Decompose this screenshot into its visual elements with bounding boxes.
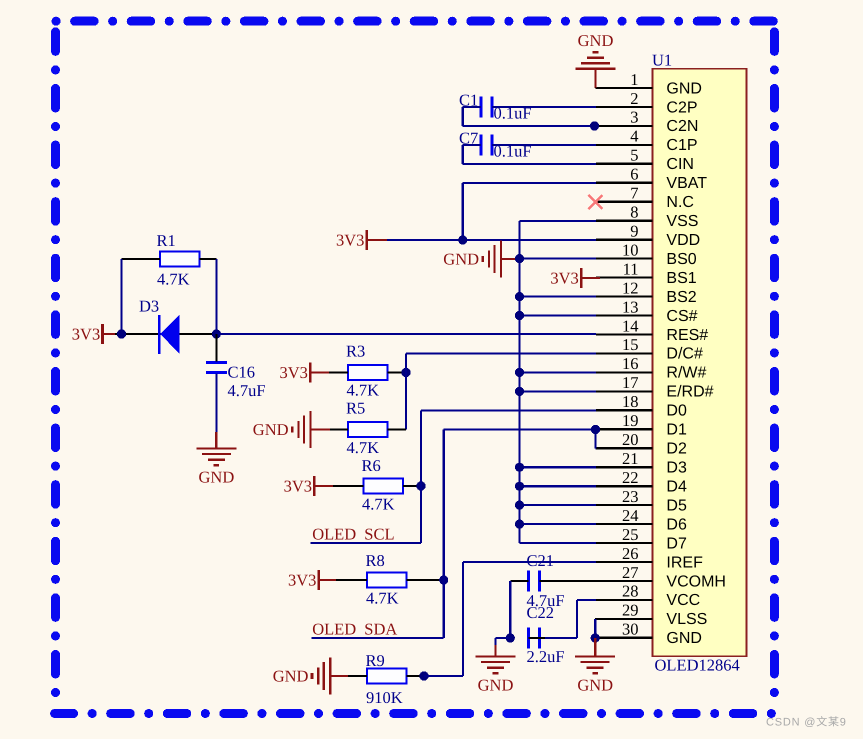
svg-text:GND: GND <box>199 467 235 486</box>
node R6 tap on D0 <box>416 481 425 490</box>
svg-text:VDD: VDD <box>666 232 700 249</box>
svg-text:3V3: 3V3 <box>288 571 316 590</box>
svg-text:D1: D1 <box>666 422 687 439</box>
wire D1 net vertical and runs <box>444 430 596 639</box>
svg-text:4.7K: 4.7K <box>362 495 395 514</box>
node bus junction pin 10 row <box>515 254 524 263</box>
pin 30 (GND) <box>596 620 702 648</box>
ground GND (sideways, R9) <box>273 658 348 695</box>
node bus junction pin 12 row <box>515 292 524 301</box>
svg-text:D/C#: D/C# <box>666 346 703 363</box>
wire R1 left leg <box>122 259 161 334</box>
svg-text:E/RD#: E/RD# <box>666 384 713 401</box>
svg-text:R8: R8 <box>366 551 385 570</box>
pin 7 (N.C) <box>596 184 694 212</box>
svg-text:4.7uF: 4.7uF <box>228 381 266 400</box>
svg-text:1: 1 <box>630 70 638 89</box>
svg-text:OLED: OLED <box>312 525 356 544</box>
svg-text:3V3: 3V3 <box>550 269 578 288</box>
node pin30 junction <box>591 633 600 642</box>
svg-text:13: 13 <box>622 297 639 316</box>
resistor R1 <box>157 231 200 289</box>
pin 17 (E/RD#) <box>596 373 714 401</box>
svg-text:2: 2 <box>630 89 638 108</box>
svg-text:CS#: CS# <box>666 308 697 325</box>
wire C1 left to pin3 row <box>463 107 596 126</box>
wire C22 to ground <box>496 638 511 647</box>
svg-text:D3: D3 <box>139 297 159 316</box>
svg-text:19: 19 <box>622 411 639 430</box>
pin 27 (VCOMH) <box>596 563 726 591</box>
node bus junction pin 13 row <box>515 311 524 320</box>
power port 3V3 (VDD rail) <box>336 230 387 250</box>
svg-text:SCL: SCL <box>364 525 394 544</box>
ground GND (below pin30) <box>575 638 615 695</box>
wire C21 right to pin27 <box>540 580 596 582</box>
power port 3V3 (R6) <box>284 476 333 496</box>
svg-text:8: 8 <box>630 203 638 222</box>
svg-text:CSDN @文某9: CSDN @文某9 <box>766 716 847 729</box>
power port 3V3 (R3) <box>280 363 330 383</box>
svg-text:10: 10 <box>622 240 639 259</box>
svg-text:C22: C22 <box>527 603 555 622</box>
wire C7 left to pin5 row <box>463 145 596 164</box>
pin 15 (D/C#) <box>596 335 703 363</box>
power port 3V3 (R8) <box>288 570 336 590</box>
svg-text:C1P: C1P <box>666 137 697 154</box>
node bus junction pin 24 row <box>515 520 524 529</box>
svg-text:11: 11 <box>623 259 639 278</box>
wire bus to pin 23 <box>520 504 597 506</box>
wire bus to pin 22 <box>520 485 597 487</box>
pin 20 (D2) <box>596 430 687 458</box>
resistor R6 <box>362 456 404 514</box>
ground GND (below C22) <box>476 645 516 695</box>
svg-text:3V3: 3V3 <box>284 477 312 496</box>
wire bus to pin 13 <box>520 314 597 316</box>
node diode anode junction <box>117 329 126 338</box>
wire C16 bottom <box>215 374 217 433</box>
resistor R3 <box>346 342 388 400</box>
pin 13 (CS#) <box>596 297 698 325</box>
svg-text:GND: GND <box>578 31 614 50</box>
svg-text:GND: GND <box>577 676 613 695</box>
no-connect X on pin 7 <box>588 195 602 209</box>
wire R8 leads <box>336 579 444 581</box>
net label OLED_SDA <box>312 620 444 639</box>
wire C7 right to pin4 <box>492 144 596 146</box>
svg-text:BS0: BS0 <box>666 251 696 268</box>
node pin3 junction <box>590 121 599 130</box>
svg-text:3V3: 3V3 <box>72 325 100 344</box>
svg-text:R1: R1 <box>157 231 176 250</box>
pin 10 (BS0) <box>596 240 697 268</box>
svg-text:3: 3 <box>630 108 638 127</box>
svg-text:15: 15 <box>622 335 639 354</box>
pin 26 (IREF) <box>596 544 703 572</box>
diode D3 <box>139 297 180 355</box>
wire bus to pin 10 <box>520 258 597 260</box>
svg-text:3V3: 3V3 <box>280 363 308 382</box>
wire GND bus vertical <box>520 221 597 543</box>
node VBAT/VDD junction <box>458 235 467 244</box>
pin 2 (C2P) <box>596 89 698 117</box>
capacitor C7 <box>459 129 532 161</box>
ground GND (top, to pin 1) <box>576 31 616 88</box>
svg-text:4.7K: 4.7K <box>347 438 380 457</box>
wire bus to pin 16 <box>520 371 597 373</box>
wire pin1 to ground <box>594 87 597 89</box>
svg-text:R6: R6 <box>362 456 381 475</box>
svg-text:29: 29 <box>622 601 639 620</box>
net label OLED_SCL <box>311 525 422 544</box>
svg-text:GND: GND <box>443 249 479 268</box>
svg-text:C2N: C2N <box>666 118 698 135</box>
wire C22 right to pin28 <box>528 600 596 638</box>
svg-text:CIN: CIN <box>666 156 694 173</box>
svg-text:12: 12 <box>622 278 639 297</box>
resistor R8 <box>366 551 407 607</box>
svg-text:D2: D2 <box>666 441 687 458</box>
svg-text:D7: D7 <box>666 535 687 552</box>
svg-text:VLSS: VLSS <box>666 611 707 628</box>
IC U1 (OLED12864 body) <box>652 51 747 675</box>
svg-text:OLED: OLED <box>312 620 356 639</box>
svg-text:GND: GND <box>666 630 702 647</box>
svg-text:27: 27 <box>622 563 639 582</box>
svg-text:D5: D5 <box>666 497 687 514</box>
node R8 tap on D1 net <box>439 575 448 584</box>
svg-text:IREF: IREF <box>666 554 703 571</box>
pin 16 (R/W#) <box>596 354 707 382</box>
svg-text:U1: U1 <box>652 51 672 70</box>
resistor R9 <box>366 651 407 707</box>
svg-text:GND: GND <box>666 80 702 97</box>
svg-text:20: 20 <box>622 430 639 449</box>
pin 25 (D7) <box>596 525 687 553</box>
node diode cathode junction <box>212 329 221 338</box>
pin 1 (GND) <box>596 70 702 98</box>
svg-text:D6: D6 <box>666 516 687 533</box>
wire D0 vertical (pin18 to OLED_SCL) <box>421 411 596 544</box>
svg-text:GND: GND <box>273 666 309 685</box>
wire 3V3 to pin9 VDD <box>387 239 596 241</box>
svg-text:910K: 910K <box>366 688 403 707</box>
svg-text:22: 22 <box>622 468 639 487</box>
svg-text:5: 5 <box>630 146 638 165</box>
svg-text:2.2uF: 2.2uF <box>527 647 565 666</box>
svg-text:C16: C16 <box>228 363 256 382</box>
svg-text:6: 6 <box>630 165 638 184</box>
svg-text:C2P: C2P <box>666 99 697 116</box>
svg-text:OLED12864: OLED12864 <box>655 656 740 675</box>
pin 14 (RES#) <box>596 316 708 344</box>
wire R3 leads <box>329 371 406 373</box>
node bus junction pin 17 row <box>515 387 524 396</box>
node bus junction pin 21 row <box>515 463 524 472</box>
wire 3V3 through diode to RES# <box>115 333 216 335</box>
pin 22 (D4) <box>596 468 687 496</box>
svg-text:3V3: 3V3 <box>336 231 364 250</box>
node bus junction pin 16 row <box>515 368 524 377</box>
svg-text:D4: D4 <box>666 479 687 496</box>
wire RES# long run to pin14 <box>216 333 596 335</box>
capacitor C16 <box>206 363 266 401</box>
svg-text:VSS: VSS <box>666 213 698 230</box>
wire pin6 VBAT down to VDD rail <box>463 183 596 240</box>
svg-text:17: 17 <box>622 373 639 392</box>
svg-text:VCC: VCC <box>666 592 700 609</box>
ground GND (sideways, R5) <box>253 411 330 448</box>
wire bus to pin 21 <box>520 466 597 468</box>
svg-text:D0: D0 <box>666 403 687 420</box>
pin 6 (VBAT) <box>596 165 707 193</box>
svg-text:VCOMH: VCOMH <box>666 573 726 590</box>
pin 28 (VCC) <box>596 582 700 610</box>
svg-text:14: 14 <box>622 316 639 335</box>
svg-text:D3: D3 <box>666 460 687 477</box>
node C22 left junction <box>506 633 515 642</box>
svg-text:7: 7 <box>630 184 638 203</box>
svg-text:26: 26 <box>622 544 639 563</box>
svg-text:9: 9 <box>630 222 638 241</box>
pin 8 (VSS) <box>596 203 698 231</box>
pin 19 (D1) <box>596 411 687 439</box>
watermark <box>766 716 847 729</box>
svg-text:RES#: RES# <box>666 327 708 344</box>
wire bus to pin 17 <box>520 390 597 392</box>
svg-text:25: 25 <box>622 525 639 544</box>
resistor R5 <box>346 399 388 458</box>
svg-text:4.7K: 4.7K <box>347 380 380 399</box>
wire C21 left to C22 <box>510 581 528 638</box>
wire C1 right to pin2 <box>492 106 596 108</box>
pin 18 (D0) <box>596 392 687 420</box>
svg-text:R9: R9 <box>366 651 385 670</box>
pin 9 (VDD) <box>596 222 700 250</box>
node R3 tap on D/C# <box>401 368 410 377</box>
svg-text:GND: GND <box>478 676 514 695</box>
svg-text:16: 16 <box>622 354 639 373</box>
pin 12 (BS2) <box>596 278 697 306</box>
svg-text:4: 4 <box>630 127 638 146</box>
pin 4 (C1P) <box>596 127 698 155</box>
capacitor C1 <box>459 91 532 123</box>
svg-text:VBAT: VBAT <box>666 175 707 192</box>
svg-text:GND: GND <box>253 420 289 439</box>
wire C16 top <box>215 334 217 362</box>
power port 3V3 (BS1) <box>550 268 600 288</box>
wire D/C# vertical (pin15 to R5) <box>406 354 596 430</box>
node bus junction pin 23 row <box>515 501 524 510</box>
pin 23 (D5) <box>596 487 687 515</box>
capacitor C22 <box>527 603 565 666</box>
ground GND (sideways, to BS0 bus) <box>443 241 519 278</box>
pin 21 (D3) <box>596 449 687 477</box>
node D1/D2 junction <box>591 425 600 434</box>
svg-text:24: 24 <box>622 506 639 525</box>
svg-text:23: 23 <box>622 487 639 506</box>
svg-text:N.C: N.C <box>666 194 694 211</box>
wire R9 to IREF pin26 <box>424 562 596 676</box>
svg-text:4.7K: 4.7K <box>157 270 190 289</box>
pin 29 (VLSS) <box>596 601 707 629</box>
node bus junction pin 22 row <box>515 482 524 491</box>
pin 11 (BS1) <box>596 259 697 287</box>
svg-text:4.7K: 4.7K <box>366 589 399 608</box>
power port 3V3 (left, diode row) <box>72 324 115 344</box>
wire R6 leads <box>333 485 421 487</box>
wire pin29 VLSS to pin30 row <box>594 619 597 638</box>
svg-text:R5: R5 <box>346 399 365 418</box>
svg-text:BS2: BS2 <box>666 289 696 306</box>
pin 3 (C2N) <box>596 108 698 136</box>
node R9 output <box>419 671 428 680</box>
wire bus to pin 24 <box>520 523 597 525</box>
wire R9 leads <box>348 675 424 677</box>
ground GND (below C16) <box>196 432 236 486</box>
svg-text:BS1: BS1 <box>666 270 696 287</box>
wire bus to pin 12 <box>520 296 597 298</box>
pin 24 (D6) <box>596 506 687 534</box>
svg-text:28: 28 <box>622 582 639 601</box>
svg-text:R3: R3 <box>346 342 365 361</box>
svg-text:R/W#: R/W# <box>666 365 706 382</box>
capacitor C21 <box>527 551 565 610</box>
svg-text:30: 30 <box>622 620 639 639</box>
wire bus bottom to pin25 D7 <box>520 542 597 544</box>
pin 5 (CIN) <box>596 146 694 174</box>
svg-text:18: 18 <box>622 392 639 411</box>
svg-text:21: 21 <box>622 449 639 468</box>
wire R1 right leg <box>200 259 217 334</box>
wire R5 leads <box>330 428 406 430</box>
svg-text:SDA: SDA <box>364 620 397 639</box>
svg-text:C21: C21 <box>527 551 555 570</box>
